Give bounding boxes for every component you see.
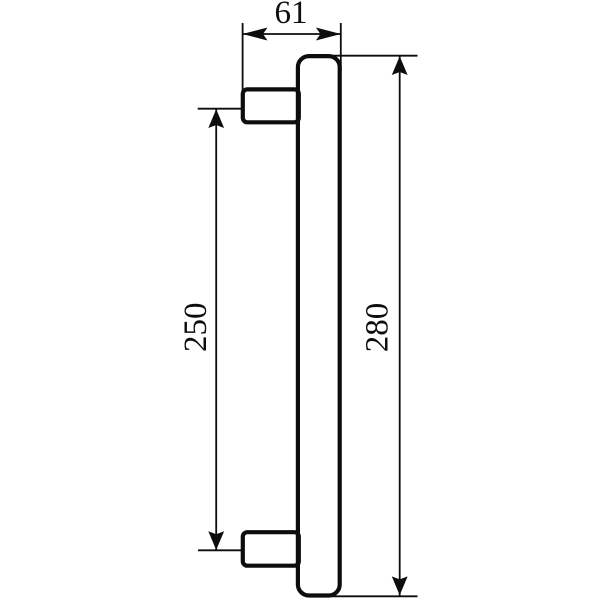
svg-text:280: 280 [359, 303, 395, 353]
extension line bottom of dim 280 [328, 595, 418, 597]
extension line top of dim 250 [198, 108, 244, 110]
arrowhead 280 top [392, 56, 408, 75]
svg-text:250: 250 [178, 303, 214, 353]
dimension line 250 [215, 109, 217, 551]
arrowhead 61 left [243, 28, 268, 41]
dimension line 280 [399, 56, 401, 596]
handle bar (side view outline) [298, 56, 340, 595]
svg-text:61: 61 [275, 0, 308, 31]
extension line top of dim 280 [330, 55, 418, 57]
arrowhead 280 bottom [392, 576, 408, 595]
bottom mounting post [243, 532, 299, 566]
top mounting post [243, 89, 299, 122]
dimension line 61 [243, 33, 341, 35]
extension line right of dim 61 [340, 23, 342, 71]
arrowhead 250 top [208, 109, 224, 128]
extension line left of dim 61 [242, 23, 244, 92]
arrowhead 61 right [316, 28, 341, 41]
arrowhead 250 bottom [208, 531, 224, 550]
extension line bottom of dim 250 [198, 549, 245, 551]
